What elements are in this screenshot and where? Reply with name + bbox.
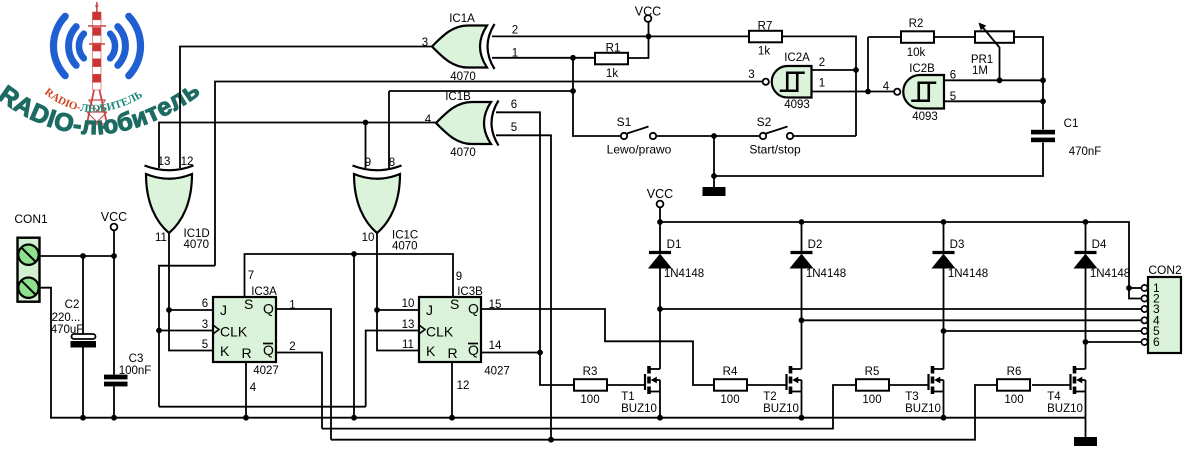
power symbol VCC (left) [101, 210, 127, 230]
wire S-junction down to ground [713, 136, 715, 176]
ground symbol (under switches) [703, 176, 726, 196]
wire C1 bottom to ground junction [714, 143, 1043, 177]
svg-text:2: 2 [289, 341, 295, 353]
node: IC3A R ground junction [243, 415, 249, 421]
svg-text:10: 10 [362, 232, 375, 244]
svg-text:S2: S2 [757, 115, 772, 129]
svg-text:CLK: CLK [426, 324, 454, 340]
svg-text:R: R [242, 345, 252, 361]
svg-text:Q: Q [263, 342, 274, 358]
power symbol VCC (top middle) [635, 5, 661, 22]
wire IC1A input 2 / VCC rail to R7 [492, 35, 749, 37]
svg-text:13: 13 [402, 319, 415, 331]
wire IC1B input 6 to vertical x540 [496, 112, 574, 385]
wire IC1A output 3 to IC1D pin 12 [180, 47, 432, 169]
svg-text:R: R [448, 345, 458, 361]
XOR gate IC1D body [146, 174, 192, 233]
wire R1 right to VCC node [628, 36, 649, 58]
node: T2 source ground junction [799, 415, 805, 421]
node: IC3B R ground junction [449, 415, 455, 421]
svg-text:100: 100 [580, 394, 599, 406]
svg-text:12: 12 [457, 380, 470, 392]
svg-text:IC2A: IC2A [784, 52, 810, 64]
svg-text:S: S [244, 296, 253, 312]
wire R5 to T3 gate [889, 384, 929, 386]
diode D4 symbol [1075, 253, 1097, 269]
wire R4 to T2 gate [746, 384, 787, 386]
node: CON2 pin1 VCC [1126, 285, 1132, 291]
svg-text:IC1A: IC1A [449, 13, 475, 25]
svg-text:Q: Q [468, 342, 479, 358]
svg-text:6: 6 [1153, 335, 1160, 349]
wire IC3A R pin4 to ground rail [245, 362, 247, 418]
JK flip-flop IC3B clock input triangle [419, 325, 425, 334]
wire VCC3 stub [659, 208, 661, 223]
svg-text:1N4148: 1N4148 [1090, 268, 1130, 280]
logo: red/white radio tower [85, 2, 109, 133]
resistor R5 body [856, 379, 889, 391]
svg-text:D3: D3 [950, 239, 965, 251]
node: T4 drain row [1083, 339, 1089, 345]
svg-text:C2: C2 [65, 299, 80, 311]
resistor R6 body [997, 379, 1030, 391]
wire CON1 bottom terminal to ground rail [40, 288, 51, 418]
wire IC2B input 5 to C1 node [944, 100, 1043, 102]
wire T1 source to ground rail [659, 380, 661, 418]
wire D1 top [659, 222, 661, 253]
connector CON1 terminal block [18, 238, 40, 302]
wire clock to IC3A CLK vertical [159, 266, 215, 407]
wire T3 drain to CON2 pin5 [944, 330, 1142, 332]
wire IC3A S pin7 to IC3B S pin9 [245, 254, 454, 297]
wire IC3A Qbar pin2 to T3 gate line [276, 353, 322, 429]
svg-text:R4: R4 [723, 366, 738, 378]
node: T3 source ground junction [941, 415, 947, 421]
svg-text:J: J [426, 302, 433, 318]
diode D3 symbol [933, 253, 955, 269]
IC3A Qbar overbar [263, 343, 273, 345]
resistor R2 body [901, 31, 934, 43]
svg-text:4070: 4070 [450, 147, 476, 159]
svg-text:R5: R5 [865, 366, 880, 378]
wire D2 top [801, 222, 803, 253]
node: IC1C pin8/node1 junction [570, 88, 576, 94]
svg-text:3: 3 [422, 37, 428, 49]
svg-text:4: 4 [425, 114, 432, 126]
node: IC2A out/R2 junction [865, 89, 871, 95]
diode D2 symbol [791, 253, 813, 269]
node: IC1B4 to IC1C9 branch [363, 120, 369, 126]
node: ground/C1 junction [711, 173, 717, 179]
wire D4 top [1085, 222, 1087, 253]
node: wire1/R1/S1 junction [570, 55, 576, 61]
svg-text:6: 6 [950, 70, 956, 82]
transistor T1 (BUZ10 N-MOSFET) symbol [645, 366, 660, 394]
wire IC3B Q pin15 to R4 [481, 309, 714, 385]
svg-text:BUZ10: BUZ10 [763, 403, 799, 415]
JK flip-flop IC3B body [419, 297, 481, 362]
potentiometer PR1 wiper arrow [982, 27, 1000, 48]
svg-text:220...: 220... [52, 312, 81, 324]
svg-text:R2: R2 [909, 18, 924, 30]
wire PR1 wiper to pin6 net [999, 47, 1001, 80]
wire IC2B input 6 to C1 node [944, 79, 1043, 81]
wire CON1 top terminal to VCC node [40, 255, 114, 257]
wire IC1C output 10 to IC3B J and K [377, 233, 419, 351]
wire IC3A CLK input [159, 330, 213, 332]
XOR gate IC1C body [354, 174, 400, 233]
JK flip-flop IC3A clock input triangle [213, 325, 219, 334]
wire T3 source to ground rail [943, 380, 945, 418]
potentiometer PR1 body [975, 31, 1014, 43]
NAND gate IC2B body [903, 75, 944, 109]
wire IC3B Qbar pin14 to x540 [481, 352, 540, 354]
wire node1 branch down to S1 [573, 58, 621, 136]
svg-text:5: 5 [511, 122, 517, 134]
wire IC1D output 11 to IC3A J and K [169, 233, 213, 351]
svg-text:1N4148: 1N4148 [948, 268, 988, 280]
svg-text:15: 15 [489, 299, 502, 311]
svg-text:10k: 10k [907, 47, 926, 59]
svg-text:1k: 1k [606, 68, 618, 80]
XOR gate IC1B input-side double arc [492, 101, 499, 146]
wire S2 right to vertical [794, 135, 857, 137]
wire VCC left vertical through C3 [113, 231, 115, 375]
node: T1 source ground junction [657, 415, 663, 421]
svg-text:6: 6 [202, 298, 208, 310]
svg-text:J: J [220, 302, 227, 318]
svg-text:4070: 4070 [392, 241, 418, 253]
svg-text:IC3B: IC3B [457, 286, 483, 298]
wire IC1C pin8 to node1 [389, 90, 573, 92]
connector CON2 header [1141, 277, 1181, 353]
node: PR1 wiper junction [997, 77, 1003, 83]
node: IC3B Qbar junction [537, 350, 543, 356]
svg-text:9: 9 [456, 271, 462, 283]
node: IC1D out to J [166, 307, 172, 313]
JK flip-flop IC3A body [213, 297, 276, 362]
svg-text:S1: S1 [617, 115, 632, 129]
svg-text:R6: R6 [1007, 366, 1022, 378]
svg-text:14: 14 [489, 340, 502, 352]
wire T4 source to ground rail [1085, 380, 1087, 418]
svg-text:IC1B: IC1B [445, 91, 471, 103]
node: CON1/VCC junction [111, 253, 117, 259]
svg-text:D2: D2 [808, 239, 823, 251]
node: T3 drain row [941, 328, 947, 334]
svg-text:T1: T1 [621, 391, 634, 403]
svg-text:VCC: VCC [647, 187, 673, 201]
svg-text:3: 3 [748, 69, 754, 81]
node: C2 ground junction [80, 415, 86, 421]
svg-text:1: 1 [819, 78, 825, 90]
svg-text:11: 11 [402, 339, 414, 351]
wire C2 top branch [82, 256, 84, 334]
svg-text:Q: Q [468, 301, 479, 317]
NAND gate IC2A body [772, 66, 812, 98]
svg-text:R7: R7 [758, 21, 773, 33]
wire C3 bottom to ground rail [113, 387, 115, 418]
IC3B Qbar overbar [468, 343, 478, 345]
node: VCC rail D4 [1083, 219, 1089, 225]
svg-text:T3: T3 [905, 391, 918, 403]
svg-text:Q: Q [263, 301, 274, 317]
wire IC2A input 2 to vertical [812, 69, 857, 71]
node: S1-S2 ground junction [711, 133, 717, 139]
wire R7 right to S2/pin2 vertical [780, 36, 856, 136]
wire IC2A output 3 long clock line [215, 82, 763, 266]
node: IC1B pin5 T4-line junction [548, 437, 554, 443]
NAND gate IC2A output inversion bubble [763, 79, 769, 85]
capacitor C2 symbol (electrolytic) [71, 334, 97, 348]
svg-text:2: 2 [819, 57, 825, 69]
wire IC1A input 1 to R1 [492, 57, 595, 59]
svg-text:C3: C3 [129, 353, 144, 365]
wire R2 left [868, 36, 901, 38]
svg-text:100: 100 [720, 394, 739, 406]
NAND gate IC2B schmitt hysteresis symbol [911, 83, 936, 101]
wire T1 drain to CON2 pin3 [660, 308, 1142, 310]
XOR gate IC1A input-side double arc [488, 24, 495, 69]
svg-text:IC3A: IC3A [251, 286, 277, 298]
svg-text:S: S [450, 296, 459, 312]
node: IC3A CLK junction [156, 328, 162, 334]
resistor R1 body [595, 53, 628, 65]
switch S1 contacts and lever [621, 127, 656, 140]
XOR gate IC1B body [436, 102, 491, 144]
svg-text:K: K [426, 343, 436, 359]
node: C2 branch junction [80, 253, 86, 259]
svg-text:VCC: VCC [101, 210, 127, 224]
svg-text:100: 100 [1004, 394, 1023, 406]
ground symbol (bottom right at T4) [1074, 418, 1097, 446]
node: S-net ground junction [351, 415, 357, 421]
wire PR1 right to C1 top vertical [1014, 37, 1043, 130]
wire T2 drain to CON2 pin4 [802, 319, 1142, 321]
node: VCC rail D3 [941, 219, 947, 225]
wire IC1C pin9 vertical [365, 123, 367, 169]
svg-text:R1: R1 [606, 43, 621, 55]
wire S1 right to S-junction to S2 left [657, 135, 760, 137]
wire R6 to T4 gate [1032, 384, 1071, 386]
wire D2 bottom to T2 drain [801, 268, 803, 369]
svg-text:4070: 4070 [184, 239, 210, 251]
svg-text:T2: T2 [763, 391, 776, 403]
svg-text:11: 11 [155, 232, 167, 244]
svg-text:4027: 4027 [484, 366, 510, 378]
wire C2 bottom to ground rail [82, 348, 84, 418]
svg-text:R3: R3 [583, 366, 598, 378]
wire IC1B output 4 to IC1D pin13 / IC1C pin9 [159, 123, 436, 169]
wire R2 to PR1 [932, 36, 975, 38]
svg-text:7: 7 [248, 270, 254, 282]
wire R2 branch vertical to output node [867, 37, 869, 92]
svg-text:4070: 4070 [450, 71, 476, 83]
svg-text:10: 10 [402, 298, 415, 310]
svg-text:5: 5 [950, 91, 956, 103]
wire D1 bottom to T1 drain [659, 268, 661, 369]
svg-text:CON1: CON1 [14, 212, 48, 226]
wire CON2 pin1 stub [1129, 287, 1142, 289]
svg-text:100nF: 100nF [119, 365, 152, 377]
wire IC1C pin8 vertical [388, 91, 390, 168]
transistor T2 (BUZ10 N-MOSFET) symbol [787, 366, 802, 394]
svg-text:T4: T4 [1047, 391, 1061, 403]
svg-text:CLK: CLK [220, 324, 248, 340]
wire T4 gate line bottom [331, 385, 997, 440]
svg-text:1: 1 [289, 300, 295, 312]
wire T2 source to ground rail [801, 380, 803, 418]
svg-text:470nF: 470nF [1069, 146, 1102, 158]
XOR gate IC1D input-side double arc [145, 166, 194, 171]
svg-text:13: 13 [158, 156, 171, 168]
svg-text:IC2B: IC2B [909, 63, 935, 75]
svg-text:4: 4 [250, 382, 257, 394]
svg-text:C1: C1 [1064, 118, 1079, 130]
svg-text:470uF: 470uF [51, 324, 84, 336]
svg-text:4093: 4093 [784, 99, 810, 111]
svg-text:Lewo/prawo: Lewo/prawo [607, 143, 672, 157]
transistor T3 (BUZ10 N-MOSFET) symbol [929, 366, 944, 394]
wire D3 top [943, 222, 945, 253]
wire IC3B R pin12 to ground rail [451, 362, 453, 418]
wire IC2B output 4 to IC2A input 1 [812, 91, 895, 93]
wire IC3A Q pin1 to T4 gate line [276, 309, 331, 440]
node: S-net junction [351, 251, 357, 257]
svg-text:BUZ10: BUZ10 [1047, 403, 1083, 415]
svg-text:VCC: VCC [635, 5, 661, 19]
wire ground rail [50, 417, 1086, 419]
wire D3 bottom to T3 drain [943, 268, 945, 369]
node: C3 ground junction [111, 415, 117, 421]
capacitor C3 symbol [104, 375, 128, 387]
svg-text:8: 8 [389, 157, 395, 169]
wire T4 drain to CON2 pin6 [1086, 341, 1142, 343]
svg-text:D4: D4 [1092, 239, 1107, 251]
wire IC3B CLK to cross-connect [366, 331, 419, 407]
resistor R3 body [574, 379, 607, 391]
node: T2 drain row [799, 317, 805, 323]
diode D1 symbol [649, 253, 671, 269]
transistor T4 (BUZ10 N-MOSFET) symbol [1071, 366, 1086, 394]
svg-text:1N4148: 1N4148 [806, 268, 846, 280]
capacitor C1 symbol [1031, 130, 1055, 142]
svg-text:3: 3 [202, 319, 208, 331]
svg-text:12: 12 [181, 156, 194, 168]
svg-text:1k: 1k [758, 46, 770, 58]
resistor R4 body [714, 379, 747, 391]
svg-text:5: 5 [202, 339, 208, 351]
wire S-pins net down to ground rail [353, 254, 355, 418]
wire CLK cross-connect bottom [159, 406, 366, 408]
svg-text:2: 2 [512, 25, 518, 37]
XOR gate IC1A body [432, 26, 487, 68]
node: VCC top junction [646, 34, 652, 40]
node: pin6/C1 junction [1040, 77, 1046, 83]
switch S2 contacts and lever [760, 127, 793, 140]
svg-text:1M: 1M [972, 65, 988, 77]
svg-text:100: 100 [862, 394, 881, 406]
wire R3 to T1 gate [607, 384, 645, 386]
wire VCC rail to D1-D4 and CON2 [660, 222, 1142, 299]
node: T1 drain row [657, 306, 663, 312]
node: IC2A pin2/R7 junction [853, 67, 859, 73]
resistor R7 body [749, 31, 782, 43]
svg-text:D1: D1 [667, 239, 682, 251]
svg-text:9: 9 [365, 157, 371, 169]
svg-text:Start/stop: Start/stop [749, 143, 801, 157]
wire VCC2 stub [648, 22, 650, 36]
NAND gate IC2A schmitt hysteresis symbol [780, 73, 805, 91]
logo: blue radio-wave arcs [53, 16, 140, 75]
svg-text:1N4148: 1N4148 [664, 268, 704, 280]
wire IC1B input 5 to vertical x551 [496, 135, 551, 439]
svg-text:4027: 4027 [253, 365, 279, 377]
svg-text:K: K [220, 343, 230, 359]
NAND gate IC2B output inversion bubble [894, 89, 900, 95]
svg-text:BUZ10: BUZ10 [905, 403, 941, 415]
svg-text:4: 4 [883, 81, 890, 93]
wire T3 gate line bottom [322, 385, 856, 429]
XOR gate IC1C input-side double arc [353, 166, 402, 171]
svg-text:BUZ10: BUZ10 [621, 403, 657, 415]
svg-text:CON2: CON2 [1148, 263, 1182, 277]
wire D4 bottom to T4 drain [1085, 268, 1087, 369]
node: VCC rail D2 [799, 219, 805, 225]
node: pin5/C1 junction [1040, 98, 1046, 104]
node: VCC rail D1 [657, 219, 663, 225]
power symbol VCC (middle) [647, 187, 673, 207]
node: IC1C out to J [374, 307, 380, 313]
svg-text:6: 6 [511, 99, 517, 111]
svg-text:1: 1 [512, 48, 518, 60]
svg-text:4093: 4093 [912, 111, 938, 123]
